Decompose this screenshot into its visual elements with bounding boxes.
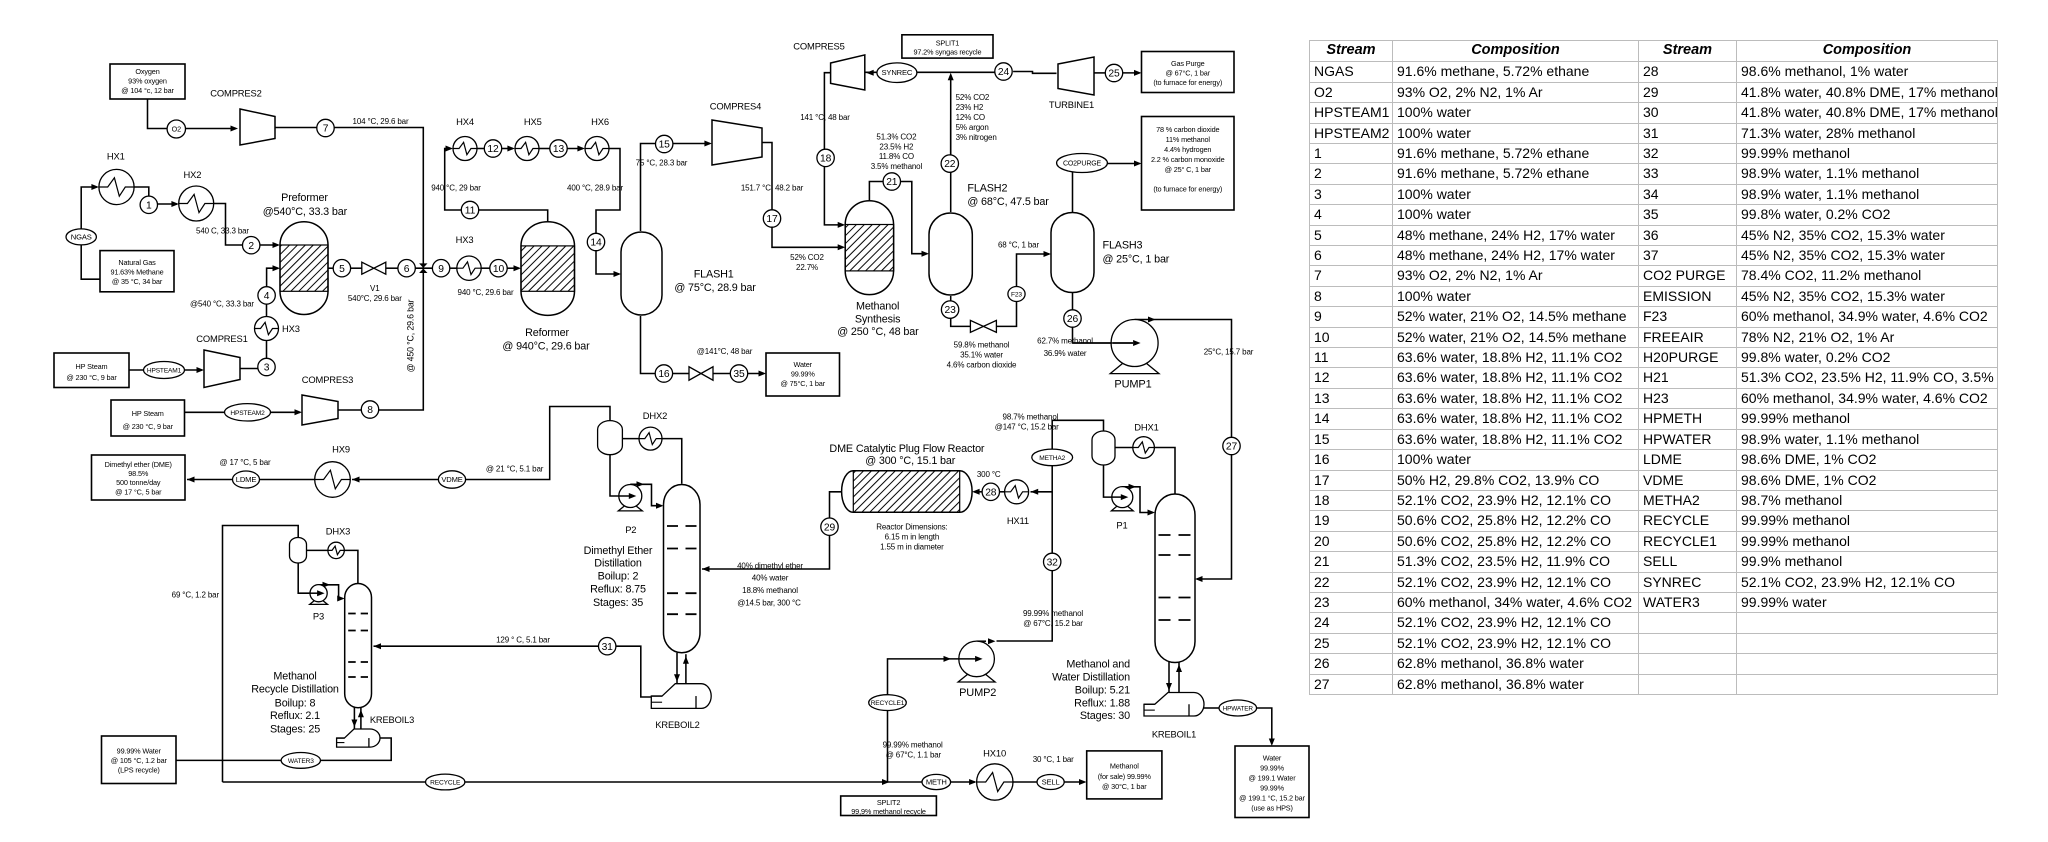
wire PUMP1 outlet to 27 to column	[1135, 320, 1232, 438]
wire HX2 to 2 to Preformer	[214, 204, 278, 246]
svg-text:Water: Water	[1263, 753, 1282, 762]
arrowhead	[187, 477, 195, 483]
svg-text:FLASH2: FLASH2	[967, 183, 1007, 195]
wire HPWATER to Water HPS box	[1257, 708, 1272, 744]
svg-text:99.99% methanol: 99.99% methanol	[1023, 609, 1083, 618]
arrowhead	[446, 146, 454, 152]
wire V1 to 6	[386, 267, 398, 269]
wire COMPRES3 to 8 to mixer rise	[338, 268, 423, 410]
svg-text:@14.5 bar, 300 °C: @14.5 bar, 300 °C	[737, 598, 801, 607]
kettle reboiler KREBOIL1	[1144, 693, 1204, 717]
svg-text:32: 32	[1047, 558, 1059, 569]
node RECYCLE1	[869, 695, 907, 711]
arrowhead	[1166, 683, 1172, 691]
node VDME	[438, 471, 465, 488]
compressor COMPRES5	[831, 55, 865, 90]
svg-text:540 C, 33.3 bar: 540 C, 33.3 bar	[196, 226, 249, 235]
svg-text:METHA2: METHA2	[1039, 455, 1065, 462]
wire COMPRES2 to 7 to mixer drop	[275, 128, 423, 269]
arrowhead	[507, 146, 515, 152]
node stream 17	[763, 210, 780, 227]
arrowhead	[1044, 251, 1052, 257]
wire P3 outlet to column	[319, 585, 343, 599]
node stream 25	[1105, 64, 1122, 81]
svg-text:@ 230 °C, 9 bar: @ 230 °C, 9 bar	[123, 422, 174, 431]
arrowhead	[1031, 489, 1039, 495]
wire DHX2 drum to P2	[610, 455, 619, 496]
wire 23 to valve F	[951, 318, 971, 326]
wire recycle column to KREBOIL3 left	[353, 707, 355, 730]
vessel Reformer	[521, 222, 575, 316]
heat exchanger HX2	[179, 186, 214, 221]
svg-text:Oxygen: Oxygen	[135, 67, 159, 76]
wire HX9 to LDME	[260, 479, 316, 481]
box HP Steam 1	[54, 353, 129, 388]
svg-text:141 °C, 48 bar: 141 °C, 48 bar	[800, 113, 850, 122]
node WATER3	[281, 753, 320, 769]
arrowhead	[317, 590, 325, 596]
svg-text:540°C, 29.6 bar: 540°C, 29.6 bar	[348, 294, 402, 303]
box Oxygen feed	[110, 64, 185, 99]
svg-text:(to furnace for energy): (to furnace for energy)	[1153, 185, 1222, 194]
wire COMPRES1 to 3	[240, 369, 267, 376]
node stream 28	[982, 483, 999, 500]
svg-text:23.5% H2: 23.5% H2	[879, 142, 914, 151]
box HPS water product	[1235, 746, 1309, 818]
svg-text:6: 6	[404, 264, 410, 275]
arrowhead	[1269, 739, 1275, 747]
wire 3 to HX3 to 4	[266, 304, 268, 359]
vessel Methanol Synthesis reactor	[845, 201, 893, 295]
arrowhead	[1129, 484, 1137, 490]
svg-text:11.8% CO: 11.8% CO	[879, 152, 914, 161]
wire 9 to HX3b	[450, 267, 458, 269]
node HPSTEAM1	[144, 362, 185, 379]
svg-text:@ 104 °c, 12 bar: @ 104 °c, 12 bar	[121, 86, 174, 95]
heat exchanger HX9	[315, 462, 351, 498]
svg-text:RECYCLE1: RECYCLE1	[871, 700, 905, 707]
svg-text:DHX3: DHX3	[326, 525, 350, 536]
reflux drum DHX1 drum	[1092, 431, 1115, 465]
wire 22 through	[950, 120, 952, 155]
pump PUMP1	[1110, 320, 1159, 374]
node O2	[167, 120, 185, 138]
wire MeOH reactor to 21 to FLASH2	[869, 182, 883, 201]
svg-text:Reactor Dimensions:: Reactor Dimensions:	[876, 522, 947, 531]
wire NGAS to NaturalGas box	[81, 245, 100, 280]
svg-text:@540 °C, 33.3 bar: @540 °C, 33.3 bar	[190, 300, 254, 309]
svg-text:@141°C, 48 bar: @141°C, 48 bar	[697, 347, 753, 356]
wire RECYCLE1 down to split junction	[887, 711, 889, 783]
svg-text:HX9: HX9	[332, 444, 350, 455]
arrowhead	[975, 656, 983, 662]
svg-text:@ 17 °C, 5 bar: @ 17 °C, 5 bar	[219, 458, 271, 467]
heat exchanger HX4	[453, 137, 477, 161]
node stream 2	[243, 237, 260, 254]
wire 5 to V1	[350, 267, 362, 269]
node stream 5	[333, 260, 350, 277]
svg-text:CO2PURGE: CO2PURGE	[1063, 161, 1102, 168]
node stream 1	[140, 196, 157, 213]
svg-text:LDME: LDME	[236, 475, 257, 484]
node stream 10	[490, 260, 507, 277]
svg-text:10: 10	[493, 264, 505, 275]
svg-text:@ 75°C, 28.9 bar: @ 75°C, 28.9 bar	[674, 282, 756, 294]
node stream 32	[1044, 553, 1061, 570]
svg-text:97.2% syngas recycle: 97.2% syngas recycle	[913, 48, 981, 57]
wire junction down to 32 to PUMP2 line	[1051, 492, 1053, 553]
mixer junction streams 7+8 into reformer feed	[419, 263, 427, 273]
svg-text:3% nitrogen: 3% nitrogen	[956, 133, 997, 142]
wire WATER3 to LPS box	[176, 759, 281, 761]
svg-text:Distillation: Distillation	[594, 557, 642, 569]
wire FLASH3 top to CO2PURGE	[1072, 172, 1074, 212]
svg-text:@ 199.1 Water: @ 199.1 Water	[1249, 773, 1297, 782]
heat exchanger HX3 (steam preheat)	[255, 317, 279, 341]
svg-text:3.5% methanol: 3.5% methanol	[871, 162, 923, 171]
arrowhead	[972, 489, 980, 495]
svg-text:Dimethyl Ether: Dimethyl Ether	[584, 545, 653, 557]
svg-text:22: 22	[944, 159, 956, 170]
arrowhead	[759, 371, 767, 377]
wire 12 to HX5	[501, 148, 513, 150]
svg-text:WATER3: WATER3	[288, 758, 314, 765]
svg-text:@ 250 °C, 48 bar: @ 250 °C, 48 bar	[837, 326, 919, 338]
svg-text:Natural Gas: Natural Gas	[118, 258, 156, 267]
valve letdown valve (FLASH1 water)	[689, 367, 713, 381]
svg-text:@ 75°C, 1 bar: @ 75°C, 1 bar	[781, 379, 826, 388]
wire DHX2 to drum	[622, 438, 639, 440]
svg-text:HX11: HX11	[1007, 515, 1029, 526]
wire 6 to 9	[415, 267, 433, 269]
svg-text:35.1% water: 35.1% water	[960, 350, 1003, 359]
arrowhead	[231, 126, 239, 132]
svg-text:12: 12	[487, 144, 499, 155]
arrowhead	[975, 656, 983, 662]
node stream 27	[1223, 437, 1240, 454]
wire DHX2 drum top to VDME line	[466, 407, 610, 480]
svg-text:@ 940°C, 29.6 bar: @ 940°C, 29.6 bar	[502, 341, 590, 353]
heat exchanger HX10	[977, 764, 1013, 800]
kettle reboiler KREBOIL3	[337, 729, 380, 747]
node METHA2	[1032, 449, 1073, 466]
svg-text:99.99% methanol: 99.99% methanol	[883, 741, 943, 750]
svg-text:27: 27	[1226, 442, 1238, 453]
arrowhead	[944, 656, 952, 662]
node stream 14	[587, 233, 604, 250]
node RECYCLE	[426, 774, 465, 790]
svg-text:Stages: 25: Stages: 25	[270, 723, 320, 735]
wire recycle column to KREBOIL3 right	[360, 708, 362, 729]
svg-text:400 °C, 28.9 bar: 400 °C, 28.9 bar	[567, 184, 623, 193]
wire 21 to FLASH2 cont	[900, 182, 927, 254]
wire HX5 to 13	[539, 148, 550, 150]
heat exchanger HX3 (reformer feed)	[457, 256, 481, 280]
wire DHX1 to column top	[1155, 448, 1175, 495]
svg-text:HP Steam: HP Steam	[76, 362, 108, 371]
node stream 3	[258, 358, 275, 375]
compressor COMPRES4	[712, 120, 762, 165]
svg-text:98.7% methanol: 98.7% methanol	[1003, 412, 1059, 421]
svg-text:Dimethyl ether (DME): Dimethyl ether (DME)	[105, 460, 172, 469]
arrowhead	[866, 70, 874, 76]
svg-text:99.99%: 99.99%	[1260, 763, 1285, 772]
wire VDME to HX9	[352, 479, 438, 481]
svg-text:Recycle Distillation: Recycle Distillation	[251, 683, 339, 695]
wire NGAS to HX1	[81, 187, 97, 229]
svg-text:2.2 % carbon monoxide: 2.2 % carbon monoxide	[1151, 155, 1225, 164]
svg-text:104 °C, 29.6 bar: 104 °C, 29.6 bar	[353, 117, 409, 126]
arrowhead	[358, 710, 364, 718]
svg-text:78 % carbon dioxide: 78 % carbon dioxide	[1156, 125, 1219, 134]
node stream 21	[883, 173, 900, 190]
arrowhead	[637, 481, 645, 487]
vessel Preformer	[280, 222, 328, 315]
svg-text:15: 15	[659, 140, 671, 151]
wire METHA2 to junction	[1031, 466, 1053, 492]
node stream 31	[599, 638, 616, 655]
arrowhead	[317, 590, 325, 596]
node stream 24	[995, 63, 1012, 80]
svg-text:21: 21	[886, 177, 898, 188]
svg-text:KREBOIL2: KREBOIL2	[655, 720, 699, 730]
wire 31 to DME column	[374, 645, 599, 647]
wire valve F to F23 to FLASH3	[996, 302, 1016, 327]
svg-text:2: 2	[248, 241, 254, 252]
node stream 8	[361, 401, 378, 418]
svg-text:59.8% methanol: 59.8% methanol	[954, 340, 1010, 349]
wire relief valve to 35	[714, 373, 731, 375]
arrowhead	[838, 244, 846, 250]
arrowhead	[352, 477, 360, 483]
heat exchanger HX5	[515, 137, 539, 161]
svg-text:23: 23	[945, 305, 957, 316]
svg-text:7: 7	[323, 124, 329, 135]
pump P3	[310, 585, 328, 605]
node stream 12	[484, 140, 501, 157]
svg-text:5% argon: 5% argon	[956, 123, 989, 132]
reactor DME Catalytic Plug Flow Reactor	[842, 471, 973, 513]
svg-text:VDME: VDME	[441, 475, 462, 484]
arrowhead	[1133, 340, 1141, 346]
arrowhead	[91, 184, 99, 190]
svg-text:18.8% methanol: 18.8% methanol	[742, 586, 798, 595]
pump PUMP1 inlet arrow line	[1073, 342, 1134, 344]
svg-text:18: 18	[820, 154, 832, 165]
svg-text:HPSTEAM1: HPSTEAM1	[147, 368, 182, 375]
svg-text:99,9% methanol recycle: 99,9% methanol recycle	[851, 807, 926, 816]
svg-text:69 °C, 1.2 bar: 69 °C, 1.2 bar	[172, 591, 220, 600]
svg-text:62.7% methanol: 62.7% methanol	[1037, 336, 1093, 345]
arrowhead	[704, 141, 712, 147]
svg-text:Reflux: 1.88: Reflux: 1.88	[1074, 697, 1130, 709]
arrowhead	[683, 656, 689, 664]
svg-text:14: 14	[590, 238, 602, 249]
wire HX1 to 1 to HX2	[134, 187, 177, 204]
svg-text:5: 5	[339, 264, 345, 275]
svg-text:Reflux: 2.1: Reflux: 2.1	[270, 710, 320, 722]
svg-text:COMPRES1: COMPRES1	[196, 333, 247, 344]
svg-text:Methanol: Methanol	[273, 671, 316, 683]
wire Preformer to 5 to V1 to 6 to 9	[328, 267, 334, 269]
svg-text:93% oxygen: 93% oxygen	[128, 77, 167, 86]
box SPLIT1	[902, 35, 993, 58]
wire COMPRES5 to 18 to MeOH reactor	[824, 73, 843, 225]
svg-text:HPWATER: HPWATER	[1223, 706, 1254, 713]
svg-text:36.9% water: 36.9% water	[1044, 349, 1087, 358]
svg-text:DHX2: DHX2	[643, 410, 667, 421]
node F23	[1008, 287, 1025, 302]
column Dimethyl Ether Distillation	[664, 485, 701, 653]
box SPLIT2	[841, 796, 937, 816]
svg-text:300 °C: 300 °C	[977, 470, 1001, 479]
svg-text:KREBOIL3: KREBOIL3	[370, 715, 414, 725]
svg-text:P2: P2	[625, 524, 636, 535]
box Natural Gas feed	[100, 251, 174, 292]
svg-text:Stages: 35: Stages: 35	[593, 597, 643, 609]
svg-text:30 °C, 1 bar: 30 °C, 1 bar	[1033, 755, 1074, 764]
svg-text:DHX1: DHX1	[1134, 422, 1158, 433]
wire PUMP2 outlet	[977, 640, 986, 642]
svg-text:13: 13	[553, 144, 565, 155]
wire 32 to PUMP2 corner	[997, 571, 1053, 641]
node CO2PURGE	[1057, 154, 1108, 173]
svg-text:COMPRES4: COMPRES4	[710, 101, 761, 112]
node NGAS	[66, 229, 96, 245]
svg-text:HX4: HX4	[456, 116, 474, 127]
svg-text:4: 4	[264, 291, 270, 302]
node stream 18	[817, 149, 834, 166]
wire Oxygen box to O2 to COMPRES2	[148, 99, 237, 129]
wire DHX3 to recycle column top	[344, 550, 358, 583]
wire HPSteam2 to COMPRES3	[185, 411, 301, 413]
wire 27 to column feed	[1197, 454, 1232, 579]
svg-text:@147 °C, 15.2 bar: @147 °C, 15.2 bar	[995, 422, 1059, 431]
svg-text:25°C, 15.7 bar: 25°C, 15.7 bar	[1204, 348, 1254, 357]
arrowhead	[674, 674, 680, 682]
wire column to KREBOIL1 left	[1168, 661, 1170, 693]
svg-text:151.7 °C, 48.2 bar: 151.7 °C, 48.2 bar	[741, 184, 804, 193]
node stream 6	[398, 260, 415, 277]
wire FLASH1 top to 15 to COMPRES4	[641, 144, 711, 232]
column Methanol and Water Distillation	[1155, 494, 1195, 663]
column Methanol Recycle Distillation	[345, 584, 372, 708]
heat exchanger HX6	[585, 137, 609, 161]
valve V1	[362, 262, 386, 274]
node stream 7	[317, 119, 334, 136]
svg-text:PUMP1: PUMP1	[1114, 378, 1151, 390]
arrowhead	[577, 146, 585, 152]
svg-text:HPSTEAM2: HPSTEAM2	[230, 410, 265, 417]
svg-text:@ 17 °C, 5 bar: @ 17 °C, 5 bar	[115, 487, 162, 496]
svg-text:SYNREC: SYNREC	[882, 68, 913, 77]
arrowhead	[838, 222, 846, 228]
svg-text:@ 67°C, 1.1 bar: @ 67°C, 1.1 bar	[886, 751, 942, 760]
svg-text:91.63% Methane: 91.63% Methane	[110, 267, 163, 276]
wire 25 to GasPurge box	[1123, 72, 1140, 74]
wire DHX3 drum to P3	[298, 563, 316, 593]
wire DME column top to DHX2 drum	[662, 439, 682, 484]
arrowhead	[656, 503, 664, 509]
svg-text:40% dimethyl ether: 40% dimethyl ether	[737, 562, 803, 571]
wire 29 to DME column feed	[702, 535, 830, 569]
wire syngas header SYNREC to 24	[865, 71, 996, 73]
box Gas Purge sink	[1142, 52, 1235, 93]
svg-text:@ 105 °C, 1.2 bar: @ 105 °C, 1.2 bar	[111, 756, 168, 765]
svg-text:24: 24	[998, 67, 1010, 78]
svg-text:68 °C, 1 bar: 68 °C, 1 bar	[998, 240, 1039, 249]
svg-text:52% CO2: 52% CO2	[956, 93, 990, 102]
svg-text:22.7%: 22.7%	[796, 263, 818, 272]
svg-text:@ 25°C, 1 bar: @ 25°C, 1 bar	[1103, 254, 1170, 266]
wire P1 outlet to column	[1122, 487, 1153, 513]
wire FLASH2 bottom to 23 to valve	[950, 296, 952, 301]
svg-text:SPLIT1: SPLIT1	[936, 38, 960, 47]
svg-text:23% H2: 23% H2	[956, 103, 984, 112]
svg-text:FLASH1: FLASH1	[694, 269, 734, 281]
svg-text:RECYCLE: RECYCLE	[430, 780, 461, 787]
svg-text:6.15 m in length: 6.15 m in length	[885, 533, 940, 542]
wire DHX1 drum to DHX1	[1115, 447, 1133, 449]
wire COMPRES4 to 17 to MeOH reactor	[762, 143, 843, 248]
svg-text:28: 28	[985, 487, 997, 498]
svg-text:DME Catalytic Plug Flow Reacto: DME Catalytic Plug Flow Reactor	[829, 443, 985, 455]
node stream 11	[461, 201, 478, 218]
svg-text:F23: F23	[1011, 292, 1022, 299]
svg-text:500 tonne/day: 500 tonne/day	[116, 478, 161, 487]
svg-text:Water Distillation: Water Distillation	[1052, 671, 1130, 683]
box LPS recycle water	[102, 736, 177, 784]
box HP Steam 2	[111, 400, 185, 436]
svg-text:@ 25° C, 1 bar: @ 25° C, 1 bar	[1165, 165, 1212, 174]
arrowhead	[1134, 161, 1142, 167]
svg-text:Synthesis: Synthesis	[855, 314, 901, 326]
pump PUMP2	[958, 641, 995, 682]
arrowhead	[1148, 317, 1156, 323]
svg-text:HX10: HX10	[983, 748, 1006, 759]
arrowhead	[702, 566, 710, 572]
wire DHX1 drum to P1	[1104, 465, 1121, 497]
heat exchanger HX11	[1005, 480, 1029, 504]
svg-text:HX6: HX6	[591, 116, 609, 127]
wire SELL to Methanol box	[1064, 781, 1084, 783]
svg-text:9: 9	[438, 264, 444, 275]
svg-text:Reflux: 8.75: Reflux: 8.75	[590, 584, 646, 596]
svg-text:99.99%: 99.99%	[791, 370, 816, 379]
arrowhead	[948, 73, 954, 81]
svg-text:METH: METH	[926, 778, 947, 787]
compressor COMPRES1	[204, 350, 240, 388]
svg-text:@ 230 °C, 9 bar: @ 230 °C, 9 bar	[66, 373, 117, 382]
turbine TURBINE1	[1058, 57, 1094, 95]
svg-text:Reformer: Reformer	[525, 327, 569, 339]
svg-text:29: 29	[824, 522, 836, 533]
svg-text:HX1: HX1	[107, 151, 125, 162]
wire TURBINE1 to 25	[1094, 72, 1105, 74]
arrowhead	[1195, 576, 1203, 582]
wire 31 to KREBOIL2	[616, 646, 652, 697]
svg-text:V1: V1	[370, 284, 380, 293]
box Water purge sink	[766, 353, 840, 396]
wire 28 to DME reactor	[974, 491, 982, 493]
arrowhead	[374, 643, 382, 649]
arrowhead	[273, 242, 281, 248]
reflux drum DHX2 drum	[598, 421, 623, 455]
arrowhead	[1121, 494, 1129, 500]
arrowhead	[351, 720, 357, 728]
svg-text:Stages: 30: Stages: 30	[1080, 710, 1130, 722]
compressor COMPRES2	[240, 109, 275, 145]
